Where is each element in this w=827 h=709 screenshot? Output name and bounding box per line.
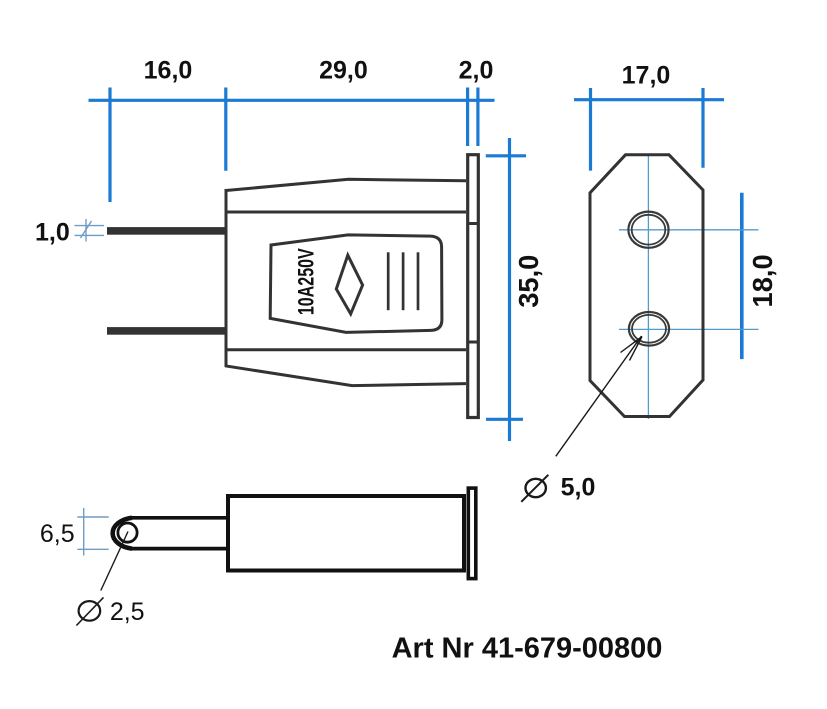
rocker grip line 3: [417, 252, 420, 310]
side view: body upper horizontal line: [226, 211, 466, 214]
rocker grip line 2: [402, 252, 405, 310]
dimension 17,0 over front view: [574, 88, 724, 171]
lower hole inner ring: [632, 315, 666, 343]
svg-text:Art Nr 41-679-00800: Art Nr 41-679-00800: [392, 632, 663, 664]
rocker diamond symbol: [336, 255, 362, 314]
svg-text:35,0: 35,0: [512, 255, 543, 308]
upper hole outer ring: [628, 212, 668, 248]
side view: body top outline: [226, 179, 466, 190]
centerline vertical of front view: [647, 155, 649, 419]
dimension 18,0 vertical line: [740, 193, 744, 359]
svg-text:1,0: 1,0: [35, 219, 70, 247]
svg-text:29,0: 29,0: [319, 56, 368, 84]
svg-text:17,0: 17,0: [622, 62, 671, 90]
svg-text:2,0: 2,0: [459, 56, 494, 84]
side view: switch body left edge: [225, 189, 228, 367]
svg-text:6,5: 6,5: [40, 520, 75, 548]
tick at x=110 (left end 16,0): [108, 88, 111, 203]
svg-text:18,0: 18,0: [747, 254, 778, 307]
svg-text:2,5: 2,5: [110, 598, 145, 626]
eyelet cap thick arc: [113, 518, 132, 549]
centerline lower hole horizontal: [619, 328, 759, 330]
svg-text:16,0: 16,0: [144, 56, 193, 84]
diameter symbol for 2,5: [76, 597, 103, 625]
svg-text:10A250V: 10A250V: [295, 248, 319, 315]
diameter symbol for 5,0: [521, 475, 548, 502]
tick at x=477.9 (right end 2,0): [476, 88, 479, 147]
upper terminal pin: [107, 227, 227, 235]
rocker actuator outline: [270, 235, 442, 333]
leader line to eyelet (diameter 2,5): [101, 532, 128, 591]
dimension 1,0 small ticks: [75, 219, 105, 242]
tick at x=467.6 (29,0 / 2,0 boundary): [466, 88, 469, 147]
svg-text:5,0: 5,0: [561, 473, 596, 501]
rocker grip line 1: [387, 252, 390, 310]
leader arrow to lower hole (diameter 5,0): [556, 336, 642, 456]
centerline upper hole horizontal: [619, 229, 759, 231]
dimension line top horizontal (16,0 / 29,0 / 2,0): [89, 99, 495, 102]
dimension 35,0 vertical line: [486, 138, 526, 441]
flange inner bar lower: [468, 341, 477, 344]
mounting flange (side view): [468, 155, 479, 418]
side view: body lower horizontal line: [226, 348, 466, 351]
bottom view: flange bar: [468, 488, 476, 578]
eyelet hole: [118, 523, 137, 542]
lower hole outer ring: [629, 312, 669, 346]
lower terminal pin: [107, 327, 227, 335]
upper hole inner ring: [632, 215, 666, 245]
dimension 6,5 small ticks: [77, 508, 108, 556]
flange inner bar upper: [468, 222, 477, 225]
tick at x=226 (16,0 / 29,0 boundary): [224, 88, 227, 171]
side view: body bottom outline: [225, 366, 466, 386]
bottom view: eyelet terminal strip: [113, 518, 226, 549]
front view mounting plate outline: [590, 155, 703, 417]
bottom view: body rectangle: [228, 496, 464, 571]
